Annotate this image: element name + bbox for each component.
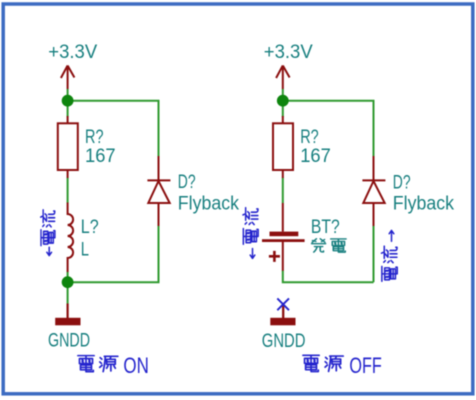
- svg-text:D?: D?: [393, 172, 411, 193]
- svg-text:167: 167: [85, 146, 116, 167]
- svg-text:Flyback: Flyback: [178, 193, 240, 214]
- svg-text:BT?: BT?: [311, 217, 340, 238]
- svg-text:GNDD: GNDD: [48, 331, 90, 352]
- svg-text:R?: R?: [85, 127, 104, 148]
- svg-text:OFF: OFF: [349, 353, 381, 378]
- svg-text:+3.3V: +3.3V: [48, 42, 97, 63]
- svg-text:Flyback: Flyback: [393, 194, 455, 215]
- svg-text:167: 167: [300, 146, 331, 167]
- svg-text:R?: R?: [300, 127, 319, 148]
- svg-text:L?: L?: [81, 217, 99, 238]
- svg-text:+3.3V: +3.3V: [264, 42, 313, 63]
- svg-text:GNDD: GNDD: [262, 331, 306, 352]
- svg-text:L: L: [81, 240, 89, 261]
- svg-text:ON: ON: [123, 353, 148, 378]
- svg-text:D?: D?: [178, 172, 196, 193]
